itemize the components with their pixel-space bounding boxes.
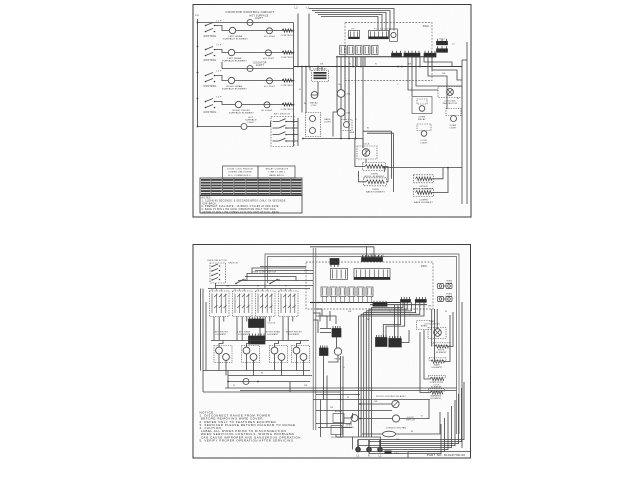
switch oven light A <box>235 279 246 284</box>
junction main bus x398 <box>397 66 399 68</box>
control board DOC box <box>345 23 432 81</box>
wire sensor feed <box>316 421 351 424</box>
terminal L2 <box>378 447 382 451</box>
wire long drop x337b <box>336 67 338 113</box>
wire route L4 <box>316 309 336 324</box>
broil element box 1 <box>363 163 386 171</box>
wire comb B drop <box>323 356 325 400</box>
aux lamp <box>421 131 427 137</box>
wire inf switch 2 drop c <box>246 317 248 322</box>
element circle row 2 <box>228 49 234 55</box>
bake element dotted outline <box>429 358 446 361</box>
connector TR1 <box>437 39 448 45</box>
wire mid drop x320 <box>320 400 322 438</box>
wire element 3 out <box>274 354 276 371</box>
table column line x211 <box>210 178 212 196</box>
terminal N stem <box>368 440 370 448</box>
wire bundle left jog 2 <box>386 302 405 337</box>
connector PL3 <box>438 297 453 302</box>
junction y399 x340 <box>340 399 342 401</box>
wire element 3 out b <box>281 360 283 375</box>
junction x355 y138 <box>355 138 357 140</box>
selector contact 1 <box>212 264 218 267</box>
motor door lock <box>392 400 399 407</box>
junction L1 bus y46.5 <box>197 46 199 48</box>
spark module box <box>390 29 398 41</box>
latch relay box <box>412 97 432 114</box>
fan motor blades <box>448 90 453 95</box>
junction dlb feed left <box>302 138 304 140</box>
lamp HI light row 2 <box>266 50 272 56</box>
oven lock switch bank box <box>271 117 294 147</box>
resistor bake 2 <box>416 191 432 195</box>
resistor bake element bottom <box>431 360 444 363</box>
wire coil A feed <box>311 92 318 95</box>
junction main bus x337 <box>336 66 338 68</box>
wire bake bottom right <box>444 315 450 362</box>
junction long element bus <box>383 167 385 169</box>
broil element dotted outline <box>433 343 450 346</box>
wire element 4 out <box>296 354 298 371</box>
terminal N <box>367 447 371 451</box>
relay box bl2 <box>331 426 342 435</box>
wire cooktop light row <box>222 68 294 70</box>
switch surface control S4 <box>205 99 216 109</box>
wire bake2 feeder <box>393 133 395 192</box>
switch surface control S3 <box>205 73 216 83</box>
surface element 2 coil A <box>243 347 250 354</box>
wire drop from DOC pin x337 <box>336 57 338 67</box>
wire cooktop light drop <box>221 62 223 69</box>
resistor broil inner <box>365 165 383 169</box>
fan motor box <box>438 87 462 98</box>
wire relay bl link <box>344 413 353 418</box>
surface element 1 coil A <box>216 347 223 354</box>
wire left pair to terminal a <box>340 356 342 437</box>
connector P1 <box>369 31 389 39</box>
wire elem bus drop <box>383 168 385 172</box>
wire switch S4 to element row <box>215 102 236 105</box>
infinite switch unit 3 box <box>256 291 276 317</box>
wire route L5 <box>313 320 318 333</box>
wire drop x290 <box>289 382 291 393</box>
wire bar to right bus 1 <box>416 57 462 86</box>
wire element feed row 2 <box>367 132 394 134</box>
surface element 4 coil B <box>300 354 307 361</box>
top diagram frame <box>193 5 471 218</box>
surface element 2 box <box>242 346 260 363</box>
wire element 1 out <box>218 354 220 371</box>
table row stripe 5 <box>201 190 301 192</box>
wire ODC pin bus right <box>370 304 427 306</box>
ODC relay 3 <box>339 287 346 297</box>
connector PL2 <box>438 284 453 289</box>
fan motor bottom <box>434 329 442 337</box>
connector P3 band <box>349 37 360 39</box>
comb block B <box>320 346 329 356</box>
wire L1 bus <box>197 19 199 127</box>
broil element box 2 <box>414 175 434 183</box>
wire bar to oven light <box>428 57 447 109</box>
junction ODC bus 3 <box>323 302 324 303</box>
selector pin 2 <box>211 270 212 271</box>
wire inf switch 2 drop b <box>241 317 243 341</box>
wire right inner bus <box>461 60 463 204</box>
wire element top bus <box>211 340 309 342</box>
part number box left <box>407 452 409 459</box>
wire element 2 feed <box>247 341 251 348</box>
part number separator <box>408 451 470 453</box>
junction main bus x302 <box>301 66 303 68</box>
rear component box <box>417 321 432 330</box>
wire right feeder 3 <box>436 309 438 329</box>
spark module circle <box>391 32 396 37</box>
junction main bus x361 <box>360 66 362 68</box>
junction ODC bus 4 <box>329 302 330 303</box>
scan noise bottom frame <box>193 245 471 459</box>
table header box <box>223 166 296 178</box>
wire bake1 left <box>359 171 367 182</box>
ODC contact bar 3 <box>415 297 426 302</box>
lock element dotted outline <box>429 375 446 378</box>
wire lock bank contact 2 out <box>286 127 298 129</box>
wire left pair to terminal b <box>342 356 344 437</box>
wire top bundle 3 <box>315 13 386 31</box>
wire inf switch 4 drop a <box>282 317 284 341</box>
wire ODC relay 2 pins <box>332 297 336 303</box>
wire element bottom bus 1 <box>203 370 310 372</box>
wire coil C down <box>340 117 342 139</box>
wire indicator feed 3 <box>309 67 311 71</box>
wire convection right <box>396 412 441 434</box>
junction L2 bus bottom <box>297 66 299 68</box>
wire bl2 drop <box>336 435 353 438</box>
connector console left block <box>330 259 339 268</box>
junction L1 mid bus bottom <box>308 66 310 68</box>
wire drop from DOC pin x345 <box>344 57 346 67</box>
table column line x281 <box>280 178 282 196</box>
wire long drop x345b <box>344 67 346 121</box>
pin lock bank 4b <box>293 140 295 142</box>
switch contact lock bank 4 <box>273 140 280 142</box>
wire right feeder 1 <box>431 309 433 347</box>
junction row 4 right <box>293 104 295 106</box>
relay contact bar BK0 <box>392 51 402 57</box>
wire warm feeder <box>419 332 421 372</box>
wire feeder 1 to terminal <box>358 382 464 447</box>
wire bundle staircase 3 <box>366 302 411 437</box>
wire console top feed <box>310 246 374 248</box>
wire drop from DOC pin x357 <box>356 57 358 67</box>
wire element row 2 <box>235 52 294 54</box>
relay contact bar BK2 <box>424 51 436 57</box>
relay K3 in DOC <box>356 46 363 55</box>
pin lock bank 1b <box>293 121 295 123</box>
wire route L2 <box>316 316 327 329</box>
console enclosure outer <box>265 254 459 434</box>
wire element 4 out b <box>303 360 305 375</box>
table row stripe 1 <box>201 179 301 181</box>
wire left bus A <box>208 288 310 290</box>
wire lock bank contact 3 out <box>286 134 298 136</box>
wire element row 4 <box>242 104 294 106</box>
selector contact 3 <box>212 273 218 276</box>
wire feeder 6 to terminal <box>380 412 448 450</box>
switch blade lock bank 1 <box>279 119 286 122</box>
wire inf switch 4 drop c <box>292 317 294 322</box>
infinite switch unit 4 contacts <box>281 294 296 314</box>
latch relay lamp <box>419 106 425 112</box>
junction elem bus 2 <box>257 381 259 383</box>
wire transformer top feed b <box>321 67 323 71</box>
comb block A <box>332 326 341 337</box>
wire mid drop x327 <box>326 376 328 428</box>
wire dlb vert <box>362 139 364 149</box>
wire element feed row 1 <box>363 130 392 132</box>
connector P1 bottom <box>362 255 383 262</box>
wire thermo to bus <box>247 274 313 281</box>
terminal L1 <box>356 447 360 451</box>
switch contact lock bank 1 <box>273 121 280 123</box>
relay contact bar BK1 <box>404 51 420 57</box>
lamp min oven <box>243 379 249 385</box>
wire element 4 feed <box>297 341 301 348</box>
wire lock left <box>424 370 431 379</box>
ODC relay 5 <box>357 287 364 297</box>
wire long element bus <box>384 167 462 169</box>
junction y404 x360 <box>359 403 361 405</box>
wire top row <box>198 22 294 24</box>
wire route L7 <box>320 332 331 334</box>
table column line x222.5 <box>222 178 224 196</box>
wire feed row y270 <box>255 270 313 272</box>
junction main bus x353 <box>352 66 354 68</box>
junction L1 bus y72.5 <box>197 72 199 74</box>
resistor control row 1 <box>282 29 292 32</box>
comb block D <box>389 336 402 347</box>
wire broil bottom right <box>448 312 453 347</box>
wire selector drop <box>215 283 217 289</box>
lamp HI light row 1 <box>267 28 273 34</box>
wire ODC relay 4 pins <box>350 297 354 303</box>
wire drop from DOC pin x361 <box>360 57 362 67</box>
wire bar to relay box <box>411 57 413 96</box>
lamp HI light row 4 <box>264 102 270 108</box>
wire switch S3 to element row <box>215 76 229 81</box>
wire broil2 feeder <box>391 131 393 179</box>
wire long bus y390 <box>240 390 457 392</box>
junction ODC bus 2 <box>317 302 318 303</box>
wire broil1 left <box>355 139 365 167</box>
wire door motor bus y399 <box>313 399 430 401</box>
motor door lock slash <box>393 401 398 406</box>
table notes box <box>200 196 302 214</box>
junction L1 bus y98.5 <box>197 98 199 100</box>
surface element 1 box <box>214 346 232 363</box>
wire inf switch 1 drop c <box>223 317 225 322</box>
table row stripe 4 <box>201 187 301 189</box>
wire bundle extra 1 <box>394 305 396 339</box>
switch contact lock bank 2 <box>273 127 280 129</box>
table column line x270 <box>269 178 271 196</box>
pin lock bank 3 <box>285 134 287 136</box>
wire bar drop x424 <box>424 57 452 67</box>
connector P1 dark band <box>369 37 389 40</box>
resistor lock element <box>431 377 444 380</box>
switch blade lock bank 2 <box>279 125 286 128</box>
oven light box <box>446 109 461 116</box>
wire element bottom bus 2 <box>228 375 312 377</box>
terminal L1 stem <box>357 440 359 448</box>
wire indicator feed 2 <box>305 67 307 113</box>
fan motor box bottom <box>428 328 446 339</box>
wire bundle staircase 1 <box>372 302 404 437</box>
wire bundle staircase 4 <box>364 302 416 437</box>
wire inf switch 3 drop b <box>264 317 266 341</box>
relay coil A <box>311 92 318 99</box>
wire to ODC left <box>252 268 306 274</box>
wire right vert x462 <box>461 302 463 448</box>
warm element dotted outline <box>429 389 445 392</box>
surface element 4 coil A <box>293 347 300 354</box>
selector pin 1 <box>211 266 212 267</box>
wire element 2 out <box>246 354 248 371</box>
junction L1 bus y126.5 <box>197 126 199 128</box>
ODC relay 1 <box>321 287 328 297</box>
switch blade lock bank 3 <box>279 132 286 135</box>
wire door switch right <box>400 400 429 419</box>
relay box bl1 <box>333 414 344 423</box>
wire bake2 right <box>432 168 449 193</box>
wire element 1 out b <box>225 360 227 375</box>
wire transformer top feed a <box>317 67 319 71</box>
relay K5 in DOC <box>372 46 379 55</box>
bake element box 1 <box>364 178 387 186</box>
junction x349 y138 <box>348 138 350 140</box>
selector switch box <box>210 263 226 283</box>
wire hot surface light row <box>198 126 242 128</box>
relay K4 in DOC <box>364 46 371 55</box>
wire feeder 8 to terminal <box>369 424 441 454</box>
wire element row 1 <box>236 30 294 32</box>
resistor warm element <box>431 391 443 394</box>
wire indicator feed 1 <box>301 67 303 113</box>
aux light box <box>417 124 431 131</box>
switch blade lock bank 4 <box>279 138 286 141</box>
wire relay row bus <box>336 56 436 58</box>
wire lock feeder <box>423 330 425 370</box>
wire drop from DOC pin x341 <box>340 57 342 67</box>
wire left bus drop <box>202 289 204 393</box>
console partition inner <box>315 248 317 430</box>
wire door switch row <box>360 418 393 420</box>
wire route L6 <box>329 311 331 321</box>
wire long bus y392 <box>203 391 340 393</box>
indicator lamp 1 <box>310 116 316 122</box>
wire P1 bottom risers <box>363 255 383 258</box>
wire coil B feed <box>340 85 342 90</box>
wire right feeder 2 <box>434 309 436 362</box>
wire feeder 2 to terminal <box>369 388 462 447</box>
scan noise top frame <box>193 5 471 218</box>
wire coil bottom out <box>328 355 338 362</box>
surface element 3 coil A <box>271 347 278 354</box>
junction main bus x318 <box>317 66 319 68</box>
junction row 2 right <box>293 52 295 54</box>
infinite switch unit 1 box <box>210 291 230 317</box>
connector P5 <box>331 269 348 280</box>
connector TR2 <box>437 46 448 52</box>
wire inf switch 1 drop b <box>218 317 220 341</box>
junction row 1 right <box>293 30 295 32</box>
wire feeder 5 to terminal <box>369 406 452 448</box>
wire ODC pin bus <box>310 302 400 304</box>
console partition outer <box>312 248 314 430</box>
wire top bundle 5 <box>321 17 378 31</box>
oven light lamp <box>451 116 457 122</box>
wire transformer drop <box>317 82 319 93</box>
indicator lamp 2 <box>310 128 316 134</box>
console enclosure inner <box>268 257 457 435</box>
table column line x258 <box>257 178 259 196</box>
wire coil B to C <box>340 98 342 109</box>
selector pin out 3 <box>219 274 220 275</box>
selector pin 4 <box>211 279 212 280</box>
junction main bus x345 <box>344 66 346 68</box>
wire dlb to broil <box>365 159 367 163</box>
wire inf switch 3 drop c <box>269 317 271 322</box>
wire inf switch 2 top pins <box>235 289 244 292</box>
element circle row 1 <box>229 27 235 33</box>
relay coil bottom <box>334 348 341 355</box>
wire ODC relay 5 pins <box>359 297 363 303</box>
resistor control row 4 <box>282 103 292 106</box>
junction elem bus 1 <box>227 381 229 383</box>
wire long drop x341b <box>340 67 342 90</box>
latch relay coil <box>417 99 427 104</box>
fan blades bottom <box>435 330 440 335</box>
wire door motor row <box>360 403 392 405</box>
junction bake2 bus <box>447 167 449 169</box>
junction ODC bus 7 <box>347 302 348 303</box>
wire feeder 3 to terminal <box>380 394 459 447</box>
wire top bundle 1 <box>309 9 394 31</box>
lamp hot surface light <box>247 20 253 26</box>
junction main bus x420 <box>419 66 421 68</box>
resistor bake inner <box>366 180 384 184</box>
selector pin out 4 <box>219 279 220 280</box>
wire right bus top link <box>462 59 467 61</box>
selector pin out 1 <box>219 265 220 266</box>
wire drop x228 <box>227 371 229 389</box>
fan motor <box>447 89 454 96</box>
selector pin 3 <box>211 275 212 276</box>
lamp 40w box <box>341 120 352 131</box>
infinite switch unit 2 box <box>233 291 253 317</box>
wire inf switch 1 top pins <box>212 289 221 292</box>
wire bar drop x420 <box>419 57 421 67</box>
ground lug GRD <box>385 451 392 454</box>
relay coil C <box>337 109 345 117</box>
wire ODC relay 3 pins <box>341 297 345 303</box>
ODC relay 6 <box>366 287 373 297</box>
wire convection row <box>362 433 383 435</box>
wire bundle extra 2 <box>397 305 399 339</box>
element circle row 4 <box>235 101 241 107</box>
wire broil2 right <box>432 168 444 179</box>
switch surface control S2 <box>205 47 216 57</box>
resistor broil element bottom <box>435 345 448 348</box>
